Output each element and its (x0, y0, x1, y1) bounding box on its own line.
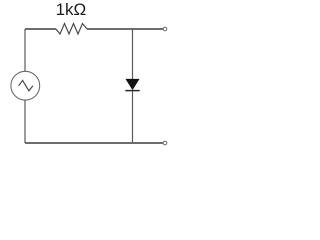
resistor R1 (56, 24, 87, 35)
wire resistor to top-right terminal (87, 28, 163, 30)
wire diode branch upper (junction to anode) (132, 29, 134, 79)
wire source to bottom-left corner (24, 100, 26, 143)
wire bottom horizontal (25, 142, 163, 144)
wire diode branch lower (cathode to bottom wire) (132, 91, 134, 143)
diode cathode bar (125, 90, 139, 92)
terminal top-right (163, 27, 167, 31)
diode D1 (126, 79, 139, 89)
svg-text:1kΩ: 1kΩ (56, 0, 87, 19)
AC sine symbol (19, 80, 33, 90)
terminal bottom-right (163, 141, 167, 145)
wire top-left horizontal (node A to resistor) (25, 28, 56, 30)
wire left vertical (top corner to source) (24, 29, 26, 72)
AC source V1 (11, 71, 40, 100)
